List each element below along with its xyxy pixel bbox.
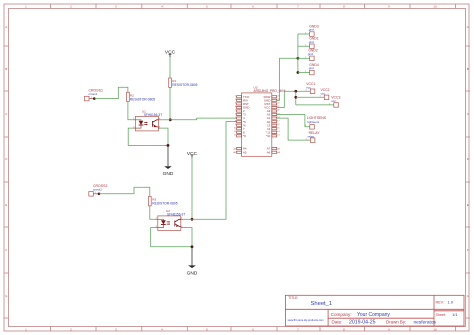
connector GND2 bbox=[305, 49, 318, 61]
svg-text:A5: A5 bbox=[243, 150, 247, 154]
node gnd bus tap bbox=[297, 57, 300, 60]
wire CROSS1 to R2 bbox=[95, 87, 128, 98]
wire stub to VCC3 bbox=[296, 104, 334, 106]
resistor R3 bbox=[149, 197, 178, 206]
power VCC (top) bbox=[165, 50, 176, 58]
wire U2 cathode loop bbox=[151, 228, 192, 247]
svg-text:GND: GND bbox=[187, 270, 198, 276]
wire R2 to U1 anode bbox=[128, 102, 133, 120]
power VCC (second) bbox=[187, 151, 198, 158]
svg-text:gnd: gnd bbox=[309, 28, 314, 32]
svg-text:*9: *9 bbox=[243, 134, 246, 138]
wire U3 A1 to RELAY bbox=[277, 118, 311, 140]
wire U2 collector bbox=[183, 218, 192, 220]
resistor R1 bbox=[169, 78, 198, 87]
opto-coupler U1 bbox=[133, 109, 162, 130]
wire R3 to U2 anode bbox=[150, 206, 156, 219]
svg-text:gnd: gnd bbox=[309, 66, 314, 70]
node vcc rail tap 2 bbox=[294, 96, 297, 99]
wire U1 collector bbox=[161, 119, 171, 121]
node collector U2 bbox=[191, 218, 194, 221]
wire stub to GND3 bbox=[298, 33, 310, 35]
svg-text:REV:: REV: bbox=[436, 301, 444, 305]
wire U3 A2 to LIGHTSENS bbox=[277, 115, 310, 127]
wire R1 to collector node bbox=[169, 87, 171, 119]
wire stub to VCC2 bbox=[296, 96, 325, 98]
svg-text:gnd: gnd bbox=[309, 40, 314, 44]
IC U3 ARDUINO_PRO_MINI bbox=[233, 86, 285, 157]
U3 left pin numbers bbox=[234, 96, 237, 137]
svg-text:gnd: gnd bbox=[308, 52, 313, 56]
svg-text:E: E bbox=[5, 203, 7, 207]
svg-text:Drawn By:: Drawn By: bbox=[386, 320, 406, 325]
svg-text:GND: GND bbox=[163, 171, 174, 177]
svg-text:TITLE:: TITLE: bbox=[288, 296, 298, 300]
svg-text:10: 10 bbox=[433, 327, 437, 331]
ground GND (circuit 1) bbox=[163, 145, 174, 177]
frame column ticks top bbox=[51, 4, 456, 9]
frame row ticks right bbox=[466, 46, 471, 318]
svg-text:nesferatos: nesferatos bbox=[414, 320, 437, 326]
wire stub to GND1 bbox=[298, 45, 310, 47]
connector GND4 bbox=[305, 63, 319, 75]
svg-text:lightsens: lightsens bbox=[307, 120, 319, 124]
title block bbox=[285, 295, 464, 326]
node GND junction 1 bbox=[167, 144, 170, 147]
wire vcc rail vertical bbox=[295, 91, 297, 105]
svg-text:F: F bbox=[5, 248, 7, 252]
svg-text:E: E bbox=[467, 203, 469, 207]
frame row ticks left bbox=[4, 46, 9, 318]
svg-text:RESISTOR-0805: RESISTOR-0805 bbox=[130, 98, 155, 102]
wire U3 GND pin to gnd bus bbox=[277, 58, 298, 100]
svg-text:2019-04-25: 2019-04-25 bbox=[349, 320, 376, 326]
connector GND1 bbox=[305, 37, 319, 49]
opto-coupler U2 bbox=[155, 209, 185, 231]
wire U3 VCC pin to vcc rail bbox=[277, 91, 311, 107]
wire CROSS2 to R3 bbox=[99, 187, 150, 196]
connector VCC3 bbox=[329, 96, 340, 108]
svg-text:Company:: Company: bbox=[331, 312, 352, 317]
svg-text:A: A bbox=[5, 25, 7, 29]
svg-text:B: B bbox=[5, 67, 7, 71]
wire collector node to IC pin 5 bbox=[192, 122, 237, 220]
svg-text:A6: A6 bbox=[267, 150, 271, 154]
wire stub to GND4 bbox=[298, 72, 310, 74]
wire stub to GND2 bbox=[298, 57, 310, 59]
node collector U1 bbox=[169, 118, 172, 121]
svg-text:RESISTOR-0805: RESISTOR-0805 bbox=[152, 202, 177, 206]
svg-text:Sheet_1: Sheet_1 bbox=[311, 301, 333, 307]
wire gnd bus vertical bbox=[297, 34, 299, 73]
connector VCC2 bbox=[320, 88, 330, 100]
connector CROSS2 bbox=[89, 184, 108, 196]
connector CROSS1 bbox=[85, 88, 103, 100]
svg-text:*10: *10 bbox=[266, 134, 271, 138]
svg-text:Date:: Date: bbox=[332, 320, 343, 325]
svg-text:F: F bbox=[467, 248, 469, 252]
svg-text:Sheet:: Sheet: bbox=[436, 313, 447, 317]
svg-text:A: A bbox=[467, 25, 469, 29]
svg-text:RESISTOR-0805: RESISTOR-0805 bbox=[172, 83, 197, 87]
node gnd bus bottom bbox=[297, 71, 300, 74]
frame row letters bbox=[5, 25, 470, 298]
svg-text:ARDUINO_PRO_MINI: ARDUINO_PRO_MINI bbox=[254, 89, 286, 93]
svg-text:vcc: vcc bbox=[331, 99, 336, 103]
frame column ticks bottom bbox=[51, 327, 456, 332]
svg-text:10: 10 bbox=[433, 5, 437, 9]
wire collector node to IC pin 4 bbox=[170, 118, 236, 120]
wire VCC to U2 collector node bbox=[191, 158, 193, 219]
svg-text:1/1: 1/1 bbox=[452, 312, 458, 317]
svg-text:cross1: cross1 bbox=[89, 92, 98, 96]
U3 right pin numbers bbox=[277, 96, 280, 137]
connector LIGHTSENS bbox=[305, 116, 327, 129]
connector VCC1 bbox=[306, 82, 316, 93]
svg-text:vcc: vcc bbox=[321, 91, 326, 95]
resistor R2 bbox=[127, 92, 156, 101]
ground GND (circuit 2) bbox=[187, 247, 198, 276]
node vcc rail tap 1 bbox=[294, 90, 297, 93]
wire VCC to R1 bbox=[169, 57, 171, 78]
wire U1 emitter bbox=[161, 128, 168, 145]
svg-text:www.fht.store.diy-products.com: www.fht.store.diy-products.com bbox=[288, 318, 324, 322]
svg-text:1.0: 1.0 bbox=[448, 300, 454, 305]
wire U1 cathode loop bbox=[128, 128, 168, 145]
wire U2 emitter bbox=[183, 228, 192, 247]
svg-text:B: B bbox=[467, 67, 469, 71]
connector GND3 bbox=[305, 24, 319, 36]
node GND junction 2 bbox=[191, 245, 194, 248]
connector RELAY bbox=[306, 131, 321, 142]
svg-text:Your Company: Your Company bbox=[357, 312, 390, 318]
